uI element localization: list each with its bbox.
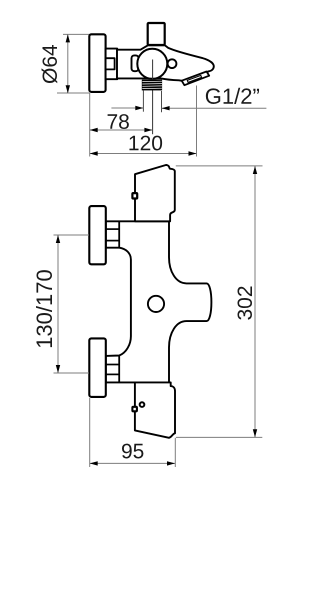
aerator inner detail xyxy=(187,75,201,82)
union collar xyxy=(106,49,118,80)
G1/2 leader left segment xyxy=(111,107,143,109)
dim 130/170 top extension line xyxy=(54,234,90,236)
dim Ø64 top extension line xyxy=(63,33,90,35)
bottom outlet shape xyxy=(135,382,175,437)
wall extension line xyxy=(89,93,91,157)
dim 130/170 bottom extension line xyxy=(54,372,90,374)
dim 78 arrows xyxy=(90,128,98,132)
dim 95 line xyxy=(90,462,175,464)
dim 302 top extension line xyxy=(176,165,263,167)
dim 130/170 dimension line xyxy=(57,235,59,373)
dim Ø64 dimension line xyxy=(67,35,69,93)
dim 95 right extension line xyxy=(174,438,176,467)
thread extension line right xyxy=(161,91,163,112)
dim 302 arrows xyxy=(253,166,257,174)
centerline xyxy=(152,60,154,135)
top inlet pipe bands xyxy=(106,228,119,230)
top knob xyxy=(148,23,165,45)
knob ring bracket xyxy=(132,55,139,71)
bottom inlet pipe right edge xyxy=(118,356,120,383)
temperature knob circle xyxy=(137,49,167,79)
svg-text:302: 302 xyxy=(234,285,257,320)
bottom escutcheon xyxy=(89,338,106,397)
dim 78 line xyxy=(90,129,153,131)
spout (top view pentagon) xyxy=(135,165,175,221)
thread extension line left xyxy=(142,91,144,112)
body outline xyxy=(106,221,212,382)
svg-text:G1/2”: G1/2” xyxy=(205,84,260,109)
dim 95 left extension line xyxy=(89,398,91,467)
shower outlet thread (ribbed) xyxy=(142,80,162,91)
svg-text:Ø64: Ø64 xyxy=(39,44,62,84)
top inlet pipe right edge xyxy=(118,221,120,247)
dim 130/170 arrows xyxy=(56,235,60,243)
dim 120 arrows xyxy=(90,151,98,155)
dim Ø64 arrow down xyxy=(66,85,70,93)
bottom inlet pipe bands xyxy=(106,364,119,366)
union pipe step xyxy=(106,58,115,69)
dim Ø64 arrow up xyxy=(66,34,70,42)
dim 302 dimension line xyxy=(254,166,256,437)
lever nub xyxy=(168,59,177,68)
G1/2 arrow left-pointing xyxy=(162,106,170,110)
dim 120 line xyxy=(90,153,197,155)
diverter square on spout xyxy=(132,193,137,198)
dim Ø64 bottom extension line xyxy=(57,92,90,94)
svg-text:130/170: 130/170 xyxy=(32,269,57,349)
G1/2 leader right segment xyxy=(162,107,267,109)
small circle on outlet xyxy=(140,402,145,407)
knob circle (front) xyxy=(148,296,164,312)
top escutcheon xyxy=(89,206,106,264)
small square on outlet xyxy=(132,407,137,412)
dim 302 bottom extension line xyxy=(176,436,262,438)
spout outlet extension line xyxy=(196,86,198,157)
aerator block xyxy=(182,72,210,86)
svg-text:78: 78 xyxy=(106,111,129,134)
body + spout outline xyxy=(117,45,214,84)
svg-text:95: 95 xyxy=(121,440,144,463)
wall escutcheon (side) xyxy=(89,34,105,92)
svg-text:120: 120 xyxy=(128,132,163,155)
dim 95 arrows xyxy=(90,461,98,465)
G1/2 arrow right-pointing xyxy=(135,106,143,110)
